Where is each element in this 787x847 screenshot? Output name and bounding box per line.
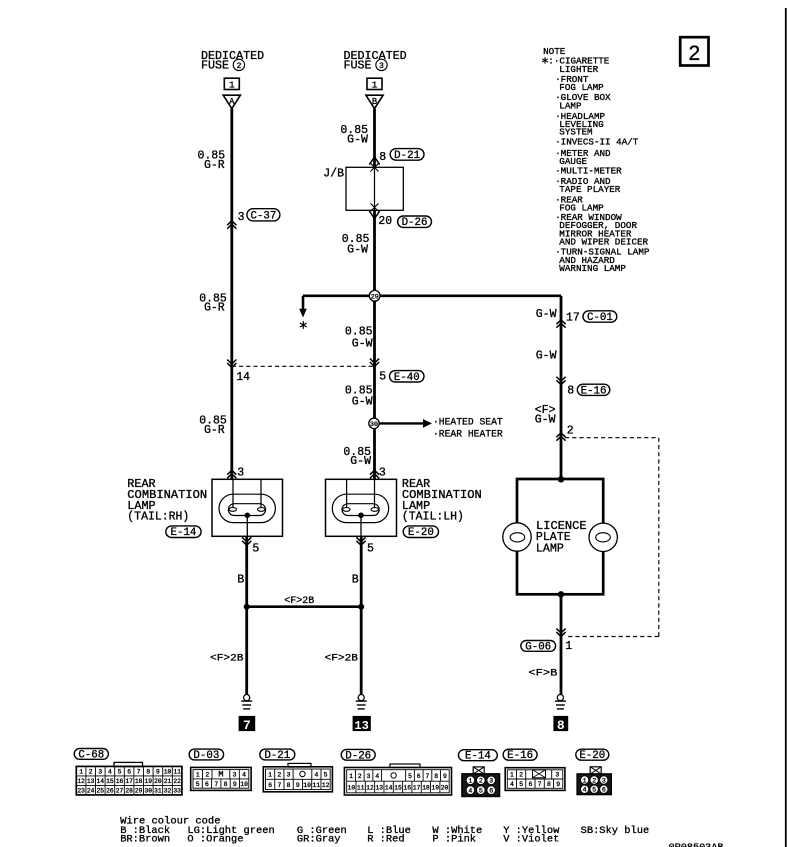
svg-text:1: 1 (565, 640, 572, 653)
ground point box 7 (239, 716, 256, 731)
svg-text:13: 13 (375, 785, 383, 792)
svg-text:2: 2 (277, 771, 281, 778)
svg-text:12: 12 (77, 778, 85, 785)
fuse 2 rating box pin 1 (224, 78, 239, 89)
svg-text:9: 9 (556, 781, 560, 788)
svg-text:12: 12 (366, 785, 374, 792)
svg-text:16: 16 (403, 785, 411, 792)
svg-text:3: 3 (555, 772, 559, 779)
svg-text:·INVECS-II 4A/T: ·INVECS-II 4A/T (555, 136, 639, 147)
svg-text:28: 28 (125, 788, 133, 795)
splice node 29 (303, 294, 375, 297)
svg-text:3: 3 (233, 772, 237, 779)
svg-text:·HEATED SEAT: ·HEATED SEAT (433, 416, 503, 428)
svg-text:1: 1 (79, 769, 83, 776)
svg-text:2: 2 (89, 769, 93, 776)
svg-text:1: 1 (349, 773, 353, 780)
svg-text:D-26: D-26 (345, 750, 371, 762)
svg-text:E-14: E-14 (170, 527, 196, 539)
svg-text:C-01: C-01 (587, 312, 613, 324)
svg-text:G-W: G-W (536, 349, 557, 362)
svg-text:G-W: G-W (350, 455, 371, 468)
licence plate lamp box (558, 476, 564, 482)
svg-text:D-21: D-21 (264, 750, 290, 762)
svg-text:B: B (352, 573, 359, 586)
svg-text:30: 30 (370, 421, 378, 428)
J/B internal wire (374, 167, 376, 210)
svg-text:<F>2B: <F>2B (325, 653, 359, 665)
svg-text:29: 29 (135, 788, 143, 795)
svg-text:LAMP: LAMP (536, 541, 564, 555)
connector E-16 label (503, 749, 537, 760)
lamp LH internal wires (346, 479, 348, 508)
svg-text:8: 8 (557, 718, 565, 733)
lamp LH bulb inner (342, 504, 379, 516)
wire 2B to ground 13 (360, 607, 363, 695)
svg-text:7: 7 (277, 782, 281, 789)
ground point box 8 (553, 716, 568, 731)
svg-text:9: 9 (443, 773, 447, 780)
svg-text:3: 3 (379, 466, 386, 479)
svg-text:1: 1 (229, 80, 235, 91)
in-line connector mark pin 14 (227, 360, 236, 368)
svg-text:J/B: J/B (323, 167, 344, 180)
svg-text:<F>2B: <F>2B (284, 595, 314, 607)
svg-text:22: 22 (173, 778, 181, 785)
svg-text:14: 14 (97, 778, 105, 785)
ground symbol 7 (244, 695, 250, 701)
svg-text:6: 6 (417, 773, 421, 780)
svg-text:G-W: G-W (535, 413, 556, 426)
licence lamp bulb left (503, 523, 531, 551)
svg-text:16: 16 (116, 778, 124, 785)
svg-text:18: 18 (135, 778, 143, 785)
svg-text:2: 2 (479, 778, 483, 785)
dashed wire loop right (565, 437, 659, 439)
svg-text:0R08503AB: 0R08503AB (669, 843, 724, 847)
svg-text:E-16: E-16 (581, 385, 607, 397)
svg-text:1: 1 (268, 771, 272, 778)
svg-text:·MULTI-METER: ·MULTI-METER (555, 166, 622, 177)
J/B entry arrow (369, 157, 379, 165)
ground symbol 13 (358, 695, 364, 701)
wire G-R fuse2 to rear combination lamp RH (230, 109, 233, 480)
wire B lamp RH to ground junction (245, 536, 248, 606)
svg-text:<F>B: <F>B (528, 667, 557, 679)
lamp LH bulb outer (332, 494, 388, 522)
svg-text:1: 1 (372, 80, 378, 91)
svg-text:B: B (372, 97, 377, 107)
circled 2 symbol (233, 59, 244, 70)
J/B exit arrow (371, 203, 379, 211)
svg-text:7: 7 (137, 769, 141, 776)
wire B lamp LH to ground junction (360, 536, 363, 606)
svg-text:8: 8 (379, 151, 386, 164)
svg-text:33: 33 (173, 788, 181, 795)
svg-text:BR:Brown: BR:Brown (120, 834, 170, 846)
svg-text:G-W: G-W (352, 396, 373, 409)
svg-text:FUSE: FUSE (344, 59, 372, 73)
svg-text:D-26: D-26 (402, 217, 428, 229)
svg-text:6: 6 (205, 781, 209, 788)
connector D-26 label (341, 749, 375, 760)
lamp LH pin 5 (356, 537, 365, 545)
svg-text:G-R: G-R (204, 424, 225, 437)
svg-text:4: 4 (583, 787, 587, 794)
svg-text:5: 5 (408, 773, 412, 780)
svg-text:1: 1 (583, 777, 587, 784)
in-line connector E-40 pin 5 (370, 359, 379, 367)
svg-text:30: 30 (145, 788, 153, 795)
svg-text:C-68: C-68 (78, 749, 104, 761)
svg-text:6: 6 (127, 769, 131, 776)
connector D-26 pinout (390, 764, 420, 768)
svg-text:20: 20 (154, 778, 162, 785)
fusible link triangle B (366, 95, 383, 108)
svg-text:G-W: G-W (536, 308, 557, 321)
svg-text:G-W: G-W (347, 244, 368, 257)
svg-text:8: 8 (146, 769, 150, 776)
svg-text:E-20: E-20 (579, 750, 605, 762)
svg-text:2: 2 (358, 773, 362, 780)
svg-text:D-03: D-03 (193, 750, 219, 762)
connector E-20 label (576, 749, 609, 760)
svg-text:9: 9 (233, 781, 237, 788)
fusible link triangle A (223, 95, 240, 108)
svg-text:7: 7 (243, 718, 251, 733)
splice node 30 with branch arrow (374, 422, 424, 424)
svg-text:9: 9 (156, 769, 160, 776)
svg-text:3: 3 (602, 777, 606, 784)
svg-text:(TAIL:LH): (TAIL:LH) (402, 509, 464, 523)
svg-text:1: 1 (510, 772, 514, 779)
svg-text:3: 3 (238, 211, 245, 224)
svg-text:4: 4 (510, 781, 514, 788)
licence lamp bulb right (589, 523, 617, 551)
svg-text:2: 2 (205, 772, 209, 779)
svg-text:21: 21 (164, 778, 172, 785)
svg-text:3: 3 (237, 466, 244, 479)
svg-text:A: A (229, 97, 235, 107)
svg-text:20: 20 (378, 215, 392, 228)
svg-text:5: 5 (519, 781, 523, 788)
svg-text:4: 4 (108, 769, 112, 776)
lamp RH pin 5 (242, 537, 251, 545)
connector label E-20 (403, 526, 438, 538)
wire G-W node29 to licence plate lamp (560, 296, 563, 480)
svg-text:11: 11 (312, 782, 320, 789)
svg-text:15: 15 (394, 785, 402, 792)
svg-text:4: 4 (375, 773, 379, 780)
dashed link between tail lamp wires (232, 365, 375, 367)
svg-text:E-16: E-16 (507, 750, 533, 762)
svg-text:G-R: G-R (204, 159, 225, 172)
svg-text:8: 8 (434, 773, 438, 780)
svg-text:5: 5 (367, 542, 374, 555)
svg-text:6: 6 (268, 782, 272, 789)
svg-text:3: 3 (489, 778, 493, 785)
connector E-20 pinout (590, 767, 601, 774)
svg-text:5: 5 (196, 781, 200, 788)
svg-text:8: 8 (567, 385, 574, 398)
svg-text:4: 4 (468, 788, 472, 795)
svg-text:FUSE: FUSE (201, 59, 229, 73)
svg-text:6: 6 (529, 781, 533, 788)
svg-text:10: 10 (303, 782, 311, 789)
svg-text:7: 7 (538, 781, 542, 788)
svg-text:LAMP: LAMP (559, 100, 582, 111)
svg-text:18: 18 (422, 785, 430, 792)
svg-text:3: 3 (379, 62, 384, 71)
svg-text:11: 11 (357, 785, 365, 792)
svg-text:20: 20 (441, 785, 449, 792)
svg-text:14: 14 (236, 371, 250, 384)
svg-text:31: 31 (154, 788, 162, 795)
splice junction left (244, 604, 250, 610)
svg-text:C-37: C-37 (250, 210, 276, 222)
connector label E-14 (166, 526, 201, 538)
svg-text:27: 27 (116, 788, 124, 795)
svg-text:19: 19 (145, 778, 153, 785)
wire node29 to licence lamp column (375, 294, 562, 297)
wire G-W fuse3 to J/B (373, 109, 376, 168)
rear combination lamp LH pin 3 (370, 470, 379, 478)
connector E-16 pin 8 (556, 377, 565, 385)
wire G-W J/B to lamp LH (373, 210, 376, 479)
svg-text:19: 19 (431, 785, 439, 792)
svg-text:E-20: E-20 (408, 527, 434, 539)
circled 3 symbol (376, 59, 387, 70)
svg-text:10: 10 (240, 781, 248, 788)
svg-text:G-R: G-R (204, 301, 225, 314)
asterisk destination mark (300, 321, 307, 329)
svg-text:3: 3 (367, 773, 371, 780)
svg-text:15: 15 (106, 778, 114, 785)
svg-text:3: 3 (287, 771, 291, 778)
svg-text:17: 17 (566, 312, 580, 325)
svg-text:2: 2 (519, 772, 523, 779)
svg-text:32: 32 (164, 788, 172, 795)
svg-text:5: 5 (479, 788, 483, 795)
ground symbol 8 (557, 695, 563, 701)
svg-text:7: 7 (214, 781, 218, 788)
svg-text:23: 23 (77, 788, 85, 795)
svg-text:13: 13 (354, 719, 369, 733)
connector D-03 pinout (191, 767, 251, 790)
svg-text:V :Violet: V :Violet (503, 834, 559, 846)
rear combination lamp RH pin 3 (227, 470, 236, 478)
svg-text:5: 5 (592, 787, 596, 794)
connector D-21 label (260, 749, 295, 760)
wire B licence lamp to ground 8 (560, 594, 563, 694)
svg-text:5: 5 (252, 542, 259, 555)
svg-text:4: 4 (242, 772, 246, 779)
connector E-16 pinout (505, 768, 565, 791)
svg-text:G-W: G-W (352, 337, 373, 350)
svg-text:6: 6 (489, 788, 493, 795)
svg-text:13: 13 (87, 778, 95, 785)
jumper wire 2B between grounds (247, 605, 362, 608)
svg-text:2: 2 (688, 42, 700, 65)
svg-text:E-14: E-14 (465, 751, 491, 763)
connector D-03 label (189, 749, 224, 760)
svg-text:3: 3 (98, 769, 102, 776)
svg-text:WARNING LAMP: WARNING LAMP (559, 263, 626, 274)
svg-text:12: 12 (322, 782, 330, 789)
connector D-21 pinout (288, 763, 311, 767)
svg-text:5: 5 (324, 771, 328, 778)
svg-text:SB:Sky blue: SB:Sky blue (581, 825, 650, 837)
svg-text:<F>2B: <F>2B (210, 653, 244, 665)
svg-text:O :Orange: O :Orange (187, 834, 243, 846)
connector G-06 pin 1 (556, 629, 565, 637)
svg-text:17: 17 (125, 778, 133, 785)
lamp RH internal wires (232, 479, 234, 508)
ground point box 13 (353, 716, 371, 731)
svg-text:8: 8 (224, 781, 228, 788)
svg-text:10: 10 (164, 769, 172, 776)
rear combination lamp RH box E-14 (212, 479, 283, 536)
svg-text:6: 6 (602, 787, 606, 794)
splice junction right (358, 604, 364, 610)
fuse 3 rating box pin 1 (367, 78, 382, 89)
junction block J/B (346, 167, 403, 210)
svg-text:29: 29 (371, 294, 379, 301)
svg-text:D-21: D-21 (394, 150, 420, 162)
svg-text:(TAIL:RH): (TAIL:RH) (127, 509, 189, 523)
svg-text:R :Red: R :Red (367, 834, 404, 846)
wire 2B to ground 7 (245, 607, 248, 695)
svg-text:7: 7 (426, 773, 430, 780)
svg-text:P :Pink: P :Pink (432, 834, 476, 846)
svg-text:5: 5 (379, 370, 386, 383)
rear combination lamp LH box E-20 (326, 479, 397, 536)
svg-text:1: 1 (468, 778, 472, 785)
svg-text:M: M (218, 770, 223, 780)
connector E-14 label (459, 750, 498, 761)
svg-text:2: 2 (567, 425, 574, 438)
svg-text:14: 14 (385, 785, 393, 792)
svg-text:GR:Gray: GR:Gray (297, 834, 341, 846)
svg-text:24: 24 (87, 788, 95, 795)
svg-text:26: 26 (106, 788, 114, 795)
lamp RH bulb outer (219, 494, 275, 522)
svg-text:G-06: G-06 (525, 641, 551, 653)
svg-text:8: 8 (547, 781, 551, 788)
svg-text:17: 17 (413, 785, 421, 792)
svg-text:E-40: E-40 (394, 372, 420, 384)
svg-text:5: 5 (118, 769, 122, 776)
svg-text:G-W: G-W (347, 134, 368, 147)
svg-text:B: B (237, 573, 244, 586)
svg-text:25: 25 (97, 788, 105, 795)
connector C-68 label (74, 749, 108, 760)
svg-text:9: 9 (296, 782, 300, 789)
svg-text:2: 2 (592, 777, 596, 784)
svg-text:1: 1 (196, 772, 200, 779)
svg-text:2: 2 (236, 62, 241, 71)
svg-text:10: 10 (348, 785, 356, 792)
svg-text:4: 4 (314, 771, 318, 778)
connector C-68 pinout (114, 762, 143, 766)
lamp RH bulb inner (228, 504, 265, 516)
page index box 2 (680, 37, 708, 65)
svg-text:·REAR HEATER: ·REAR HEATER (433, 429, 503, 441)
connector E-14 pinout (473, 767, 484, 774)
svg-text:11: 11 (173, 769, 181, 776)
svg-text:8: 8 (287, 782, 291, 789)
